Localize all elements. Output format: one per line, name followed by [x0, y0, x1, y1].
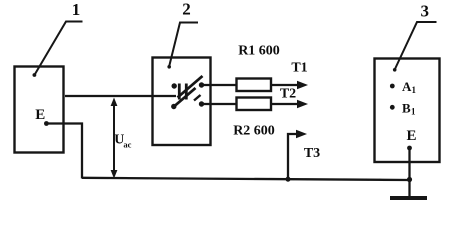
E terminal dot in block 1 — [44, 121, 49, 126]
svg-text:3: 3 — [420, 2, 429, 21]
svg-text:B: B — [402, 100, 411, 115]
label 3 leader line — [395, 22, 437, 70]
label 2 leader line — [169, 23, 198, 68]
resistor R2 — [237, 98, 272, 111]
block 1 (box) — [15, 67, 64, 153]
arrowhead T3 — [296, 130, 307, 138]
switch arm lower — [173, 88, 196, 108]
arrowhead T2 — [297, 100, 308, 108]
junction on bus at T3 riser — [286, 177, 291, 182]
svg-text:T3: T3 — [304, 146, 320, 161]
svg-text:R2 600: R2 600 — [233, 124, 275, 139]
wire: T3 riser from ground bus — [288, 134, 299, 179]
svg-text:2: 2 — [182, 0, 191, 19]
ground symbol bar — [390, 196, 427, 200]
switch arm upper — [178, 76, 203, 98]
switch linkage hatch bar 1 — [178, 84, 181, 100]
svg-text:1: 1 — [411, 106, 416, 116]
junction on bus at block3 E wire — [407, 177, 412, 182]
input A1 terminal dot in block 3 — [390, 84, 395, 89]
label 3 leader dot — [393, 68, 397, 72]
Uac arrowhead down — [111, 170, 118, 179]
E terminal dot in block 3 — [407, 146, 412, 151]
wire: switch top to R1 — [201, 84, 237, 86]
svg-text:ac: ac — [123, 140, 131, 150]
wire: block1 E to ground bus — [46, 124, 82, 179]
svg-text:T2: T2 — [280, 87, 296, 102]
switch linkage hatch bar 2 — [185, 84, 188, 100]
block 2 (box) — [153, 58, 211, 146]
ground bus wire — [82, 178, 410, 180]
Uac arrowhead up — [111, 98, 118, 107]
resistor R1 — [237, 79, 272, 92]
wire: R1 to T1 arrow — [271, 84, 299, 86]
svg-text:R1 600: R1 600 — [238, 44, 280, 59]
label 2 leader dot — [167, 65, 171, 69]
arrowhead T1 — [297, 81, 308, 89]
svg-text:T1: T1 — [291, 61, 307, 76]
block 3 (box) — [375, 59, 440, 163]
svg-text:E: E — [406, 128, 416, 144]
switch contact right terminal bottom — [199, 101, 204, 106]
svg-text:E: E — [35, 107, 45, 123]
switch lower contact open end — [194, 95, 201, 101]
wire: block1 output to switch — [65, 95, 176, 97]
label 1 leader dot — [33, 73, 37, 77]
wire: R2 to T2 arrow — [271, 103, 299, 105]
switch contact left terminal top — [172, 83, 177, 88]
input B1 terminal dot in block 3 — [390, 105, 395, 110]
svg-text:1: 1 — [412, 85, 417, 95]
label 1 leader line — [34, 22, 82, 76]
wire: block3 E to ground — [408, 148, 410, 197]
svg-text:A: A — [402, 79, 412, 94]
svg-text:1: 1 — [72, 0, 81, 19]
wire: switch bottom to R2 — [201, 103, 237, 105]
switch contact left terminal bottom — [171, 104, 176, 109]
Uac measurement arrow — [113, 101, 115, 175]
switch contact right terminal top — [199, 82, 204, 87]
